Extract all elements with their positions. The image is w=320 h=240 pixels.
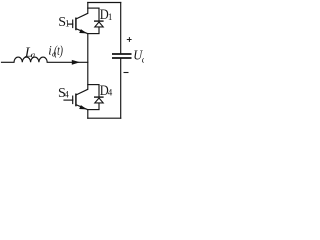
svg-text:c: c bbox=[142, 55, 144, 65]
wire S4 emitter stub bbox=[87, 110, 89, 119]
svg-text:1: 1 bbox=[65, 19, 70, 29]
wire S1 cell top bbox=[88, 7, 99, 9]
diode D4 bbox=[94, 85, 104, 110]
capacitor Uc bbox=[112, 54, 132, 58]
svg-text:1: 1 bbox=[108, 12, 113, 22]
arrow emitter S1 bbox=[79, 29, 87, 33]
wire S1 cell bottom bbox=[88, 33, 99, 35]
wire inductor to node bbox=[47, 61, 88, 63]
label ia(t) bbox=[48, 44, 63, 59]
wire top rail bbox=[88, 2, 121, 4]
current arrow ia(t) bbox=[72, 60, 80, 65]
wire right rail upper bbox=[120, 3, 122, 54]
svg-text:4: 4 bbox=[64, 89, 69, 99]
wire mid axis bbox=[87, 34, 89, 90]
inductor La bbox=[14, 57, 47, 62]
svg-text:4: 4 bbox=[108, 88, 113, 98]
wire S1 collector stub bbox=[87, 3, 89, 14]
wire right rail lower bbox=[120, 59, 122, 118]
label minus bbox=[124, 72, 129, 74]
svg-text:(t): (t) bbox=[54, 44, 63, 59]
wire inductor lead left bbox=[2, 61, 15, 63]
label La bbox=[24, 46, 35, 61]
svg-text:a: a bbox=[31, 49, 35, 59]
wire S4 cell top bbox=[88, 84, 99, 86]
arrow emitter S4 bbox=[79, 105, 87, 109]
diode D1 bbox=[94, 8, 104, 33]
label plus bbox=[127, 37, 132, 42]
igbt S1 bbox=[68, 13, 88, 33]
wire bottom rail bbox=[88, 117, 121, 119]
label S1 bbox=[58, 15, 69, 30]
label D4 bbox=[100, 83, 113, 99]
wire S4 cell bottom bbox=[88, 109, 99, 111]
igbt S4 bbox=[64, 89, 88, 109]
label Uc bbox=[133, 48, 146, 64]
label D1 bbox=[100, 7, 113, 23]
label S4 bbox=[58, 86, 69, 101]
